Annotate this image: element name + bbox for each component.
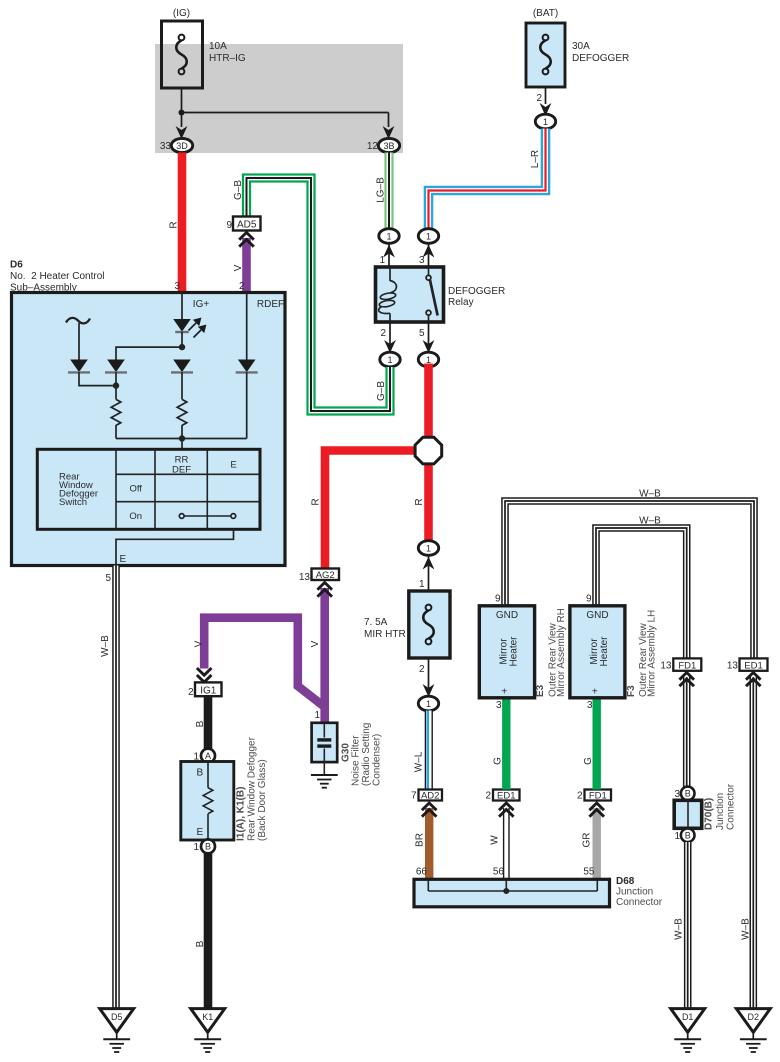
svg-text:33: 33: [160, 141, 172, 152]
gray harness block: [155, 44, 403, 153]
wire W: [490, 803, 514, 879]
svg-text:GND: GND: [496, 610, 518, 621]
svg-text:3D: 3D: [176, 141, 188, 151]
svg-text:2: 2: [239, 281, 245, 292]
wire B IG1 to A: [195, 696, 208, 750]
wire V branch to IG1: [194, 583, 333, 708]
svg-text:66: 66: [416, 867, 428, 878]
resistor R1: [111, 399, 121, 425]
svg-text:1: 1: [379, 255, 385, 266]
svg-text:12: 12: [367, 141, 379, 152]
svg-text:D2: D2: [748, 1012, 760, 1022]
svg-text:E: E: [120, 554, 127, 565]
svg-text:B: B: [685, 789, 691, 799]
connector 1 (relay pin5 bottom): [418, 322, 438, 367]
mirror heater F3: [570, 594, 658, 698]
svg-text:K1: K1: [202, 1012, 213, 1022]
svg-text:13: 13: [660, 661, 672, 672]
wire R2 bottom: [181, 425, 183, 439]
svg-text:7. 5A: 7. 5A: [364, 617, 388, 628]
svg-text:1: 1: [426, 699, 431, 709]
svg-text:9: 9: [586, 594, 592, 605]
ground G30: [311, 775, 338, 788]
svg-text:5: 5: [105, 573, 111, 584]
fuse 10A HTR-IG: [162, 8, 246, 88]
connector 1 (relay pin1 top): [379, 229, 399, 267]
ground D1: [671, 1009, 705, 1052]
svg-text:Noise Filter: Noise Filter: [351, 735, 362, 786]
svg-text:AD5: AD5: [237, 220, 257, 231]
svg-text:1: 1: [426, 544, 431, 554]
svg-text:+: +: [501, 687, 507, 698]
wire G-B loop relay pin2 to AD5: [233, 178, 390, 411]
svg-text:W–L: W–L: [414, 751, 425, 772]
wire R1 bottom: [115, 425, 117, 439]
connector 1 below MIR HTR: [418, 696, 438, 711]
svg-text:LG–B: LG–B: [376, 177, 387, 203]
svg-text:13: 13: [727, 661, 739, 672]
svg-text:W–B: W–B: [639, 516, 661, 527]
connector 1 above MIR HTR: [418, 541, 438, 591]
node dot: [179, 344, 185, 350]
svg-text:3: 3: [674, 789, 680, 800]
connector 7 AD2: [411, 790, 442, 802]
svg-text:V: V: [194, 640, 205, 647]
svg-text:G: G: [583, 757, 594, 765]
wire L-R: [429, 129, 546, 230]
svg-text:BR: BR: [415, 833, 426, 847]
svg-text:W–B: W–B: [674, 918, 685, 940]
svg-text:1: 1: [674, 831, 680, 842]
svg-text:G–B: G–B: [233, 180, 244, 200]
wire GR: [582, 803, 605, 879]
svg-text:GR: GR: [582, 833, 593, 848]
svg-text:R: R: [414, 498, 425, 505]
svg-text:(Radio Setting: (Radio Setting: [361, 723, 372, 786]
svg-text:Mirror Assembly RH: Mirror Assembly RH: [556, 608, 567, 697]
wire D3 to R2: [181, 372, 183, 399]
mirror heater E3: [479, 594, 567, 698]
svg-text:2: 2: [577, 791, 583, 802]
wire G (E3): [493, 698, 507, 790]
wire node to diode2: [116, 347, 182, 359]
svg-text:(IG): (IG): [173, 8, 190, 19]
svg-text:Junction: Junction: [715, 793, 726, 830]
svg-text:DEFOGGER: DEFOGGER: [448, 286, 505, 297]
svg-text:Heater: Heater: [599, 636, 610, 667]
svg-text:1: 1: [426, 232, 431, 242]
svg-text:9: 9: [226, 220, 232, 231]
svg-text:E3: E3: [535, 684, 546, 697]
relay coil: [379, 267, 397, 322]
switch contact On row: [179, 514, 235, 519]
diode D2: [105, 360, 127, 373]
svg-text:1: 1: [314, 710, 320, 721]
wire W-B F3 to 13 FD1: [596, 516, 687, 659]
svg-text:Mirror Assembly LH: Mirror Assembly LH: [647, 610, 658, 697]
wire BAT fuse to connector: [536, 87, 551, 116]
wire LED to node: [181, 332, 183, 348]
svg-text:1: 1: [419, 579, 425, 590]
svg-text:A: A: [205, 751, 211, 761]
svg-text:D5: D5: [111, 1012, 123, 1022]
svg-text:Relay: Relay: [448, 297, 474, 308]
connector 12 3B: [367, 126, 400, 153]
svg-text:B: B: [197, 768, 204, 779]
svg-text:DEF: DEF: [172, 465, 191, 476]
svg-text:G: G: [493, 757, 504, 765]
connector 2 FD1 (bottom): [577, 790, 611, 802]
fuse 7.5A MIR HTR: [364, 591, 450, 658]
wire tilde to diode1: [78, 323, 80, 360]
svg-text:W: W: [490, 835, 501, 845]
svg-text:55: 55: [583, 867, 595, 878]
diode D3: [171, 360, 193, 373]
svg-text:+: +: [592, 687, 598, 698]
connector 1 (relay pin3 top): [418, 229, 438, 267]
switch table: [37, 449, 260, 529]
svg-text:No. 2 Heater Control: No. 2 Heater Control: [10, 271, 105, 282]
svg-text:3: 3: [419, 255, 425, 266]
svg-text:10A: 10A: [209, 41, 227, 52]
svg-text:1: 1: [193, 842, 199, 853]
wire LG-B: [376, 153, 390, 230]
svg-text:F3: F3: [626, 685, 637, 697]
svg-text:R: R: [169, 221, 180, 228]
svg-text:3: 3: [496, 700, 502, 711]
svg-text:B: B: [195, 720, 206, 727]
junction connector D68: [414, 876, 663, 908]
wire B to K1: [195, 853, 208, 1009]
connector 13 FD1: [660, 658, 701, 671]
svg-text:I1(A), K1(B): I1(A), K1(B): [236, 787, 247, 841]
svg-text:56: 56: [493, 867, 505, 878]
svg-text:9: 9: [495, 594, 501, 605]
connector 13 ED1: [727, 658, 768, 671]
relay DEFOGGER: [376, 267, 506, 322]
svg-text:HTR–IG: HTR–IG: [209, 53, 246, 64]
connector 1 A: [193, 749, 215, 763]
connector 1 (relay pin2 bottom): [380, 322, 400, 367]
wire W-B E3 to 13 ED1: [505, 489, 754, 659]
svg-text:5: 5: [419, 328, 425, 339]
svg-text:Switch: Switch: [59, 497, 87, 508]
svg-text:D68: D68: [616, 876, 635, 887]
connector 33 3D: [160, 126, 193, 153]
wire G (F3): [583, 698, 597, 790]
svg-text:Connector: Connector: [726, 783, 737, 830]
svg-text:GND: GND: [586, 610, 608, 621]
svg-text:R: R: [311, 498, 322, 505]
svg-text:L–R: L–R: [530, 150, 541, 168]
ground D2: [736, 1009, 770, 1052]
svg-text:ED1: ED1: [744, 660, 762, 671]
svg-text:DEFOGGER: DEFOGGER: [572, 53, 629, 64]
relay switch: [426, 267, 438, 322]
connector 9 AD5: [226, 217, 260, 232]
svg-text:1: 1: [543, 117, 548, 127]
svg-text:AD2: AD2: [421, 791, 439, 802]
wire W-B to D5: [100, 566, 116, 1009]
svg-text:13: 13: [299, 572, 311, 583]
wire BR: [415, 803, 437, 879]
svg-text:30A: 30A: [572, 41, 590, 52]
svg-text:2: 2: [188, 687, 194, 698]
svg-text:Heater: Heater: [509, 636, 520, 667]
LED diode: [173, 293, 205, 338]
svg-text:B: B: [685, 831, 691, 841]
svg-text:7: 7: [411, 791, 417, 802]
svg-text:(BAT): (BAT): [533, 8, 558, 19]
wire D4 down: [246, 372, 248, 438]
svg-text:2: 2: [380, 328, 386, 339]
connector 2 IG1: [188, 668, 222, 698]
svg-text:W–B: W–B: [100, 635, 111, 657]
svg-text:Junction: Junction: [616, 887, 653, 898]
connector 13 AG2: [299, 569, 339, 584]
svg-text:IG1: IG1: [200, 686, 217, 697]
node octagon junction: [311, 364, 442, 569]
ground K1: [191, 1009, 225, 1052]
heater control D6 box: [10, 260, 285, 566]
svg-text:FD1: FD1: [678, 660, 696, 671]
svg-text:V: V: [233, 264, 244, 271]
bottom bus in D6: [116, 435, 247, 449]
wire V AG2 to G30: [310, 588, 325, 723]
connector 2 ED1 (bottom): [485, 790, 519, 802]
svg-text:W–B: W–B: [741, 918, 752, 940]
svg-text:IG+: IG+: [193, 299, 210, 310]
svg-text:E: E: [230, 460, 236, 471]
diode D1: [68, 360, 90, 373]
wire E exit D6: [105, 529, 233, 584]
wire W-B ED1 to D2: [741, 673, 761, 1009]
svg-text:Condenser): Condenser): [372, 734, 383, 786]
svg-text:FD1: FD1: [589, 791, 607, 802]
svg-text:E: E: [197, 827, 204, 838]
svg-text:3: 3: [174, 281, 180, 292]
svg-text:W–B: W–B: [639, 489, 661, 500]
svg-text:On: On: [129, 511, 142, 522]
svg-text:Rear Window Defogger: Rear Window Defogger: [247, 736, 258, 841]
svg-text:ED1: ED1: [497, 791, 515, 802]
wire W-B FD1 to D70: [679, 673, 694, 788]
svg-text:B: B: [195, 940, 206, 947]
wire diode1 to node2: [79, 372, 116, 386]
svg-text:D6: D6: [10, 260, 23, 271]
connector 1 B: [193, 839, 215, 853]
wire IG fuse to branch: [179, 88, 389, 127]
fuse 30A DEFOGGER: [526, 8, 629, 87]
svg-text:D70(B): D70(B): [704, 798, 715, 830]
wire R from 3D: [169, 153, 183, 293]
node dot 2: [113, 372, 119, 399]
svg-text:1: 1: [386, 232, 391, 242]
svg-text:MIR HTR: MIR HTR: [364, 629, 406, 640]
rear window defogger I1: [181, 736, 268, 841]
resistor R2: [177, 399, 187, 425]
svg-text:3B: 3B: [383, 141, 394, 151]
svg-text:D1: D1: [682, 1012, 694, 1022]
noise filter G30: [312, 710, 383, 786]
ground D5: [100, 1009, 134, 1052]
svg-text:1: 1: [387, 355, 392, 365]
svg-text:3: 3: [587, 700, 593, 711]
wire V AD5 to D6: [233, 233, 254, 293]
diode D4: [236, 293, 258, 373]
wire W-B D70 to D1: [674, 842, 688, 1009]
svg-text:G–B: G–B: [376, 381, 387, 401]
svg-text:2: 2: [536, 93, 542, 104]
svg-text:Connector: Connector: [616, 897, 663, 908]
junction connector D70(B): [674, 783, 736, 842]
svg-text:2: 2: [485, 791, 491, 802]
svg-text:(Back Door Glass): (Back Door Glass): [257, 759, 268, 841]
svg-text:AG2: AG2: [316, 570, 335, 581]
AC symbol: [66, 318, 90, 323]
wire W-L: [414, 711, 429, 790]
connector 1 (BAT): [535, 114, 555, 129]
svg-text:V: V: [310, 640, 321, 647]
svg-text:RDEF: RDEF: [257, 299, 284, 310]
svg-text:2: 2: [419, 664, 425, 675]
wire fuse pin2 to connector: [419, 658, 434, 697]
svg-text:Off: Off: [129, 484, 142, 495]
svg-text:B: B: [205, 842, 211, 852]
